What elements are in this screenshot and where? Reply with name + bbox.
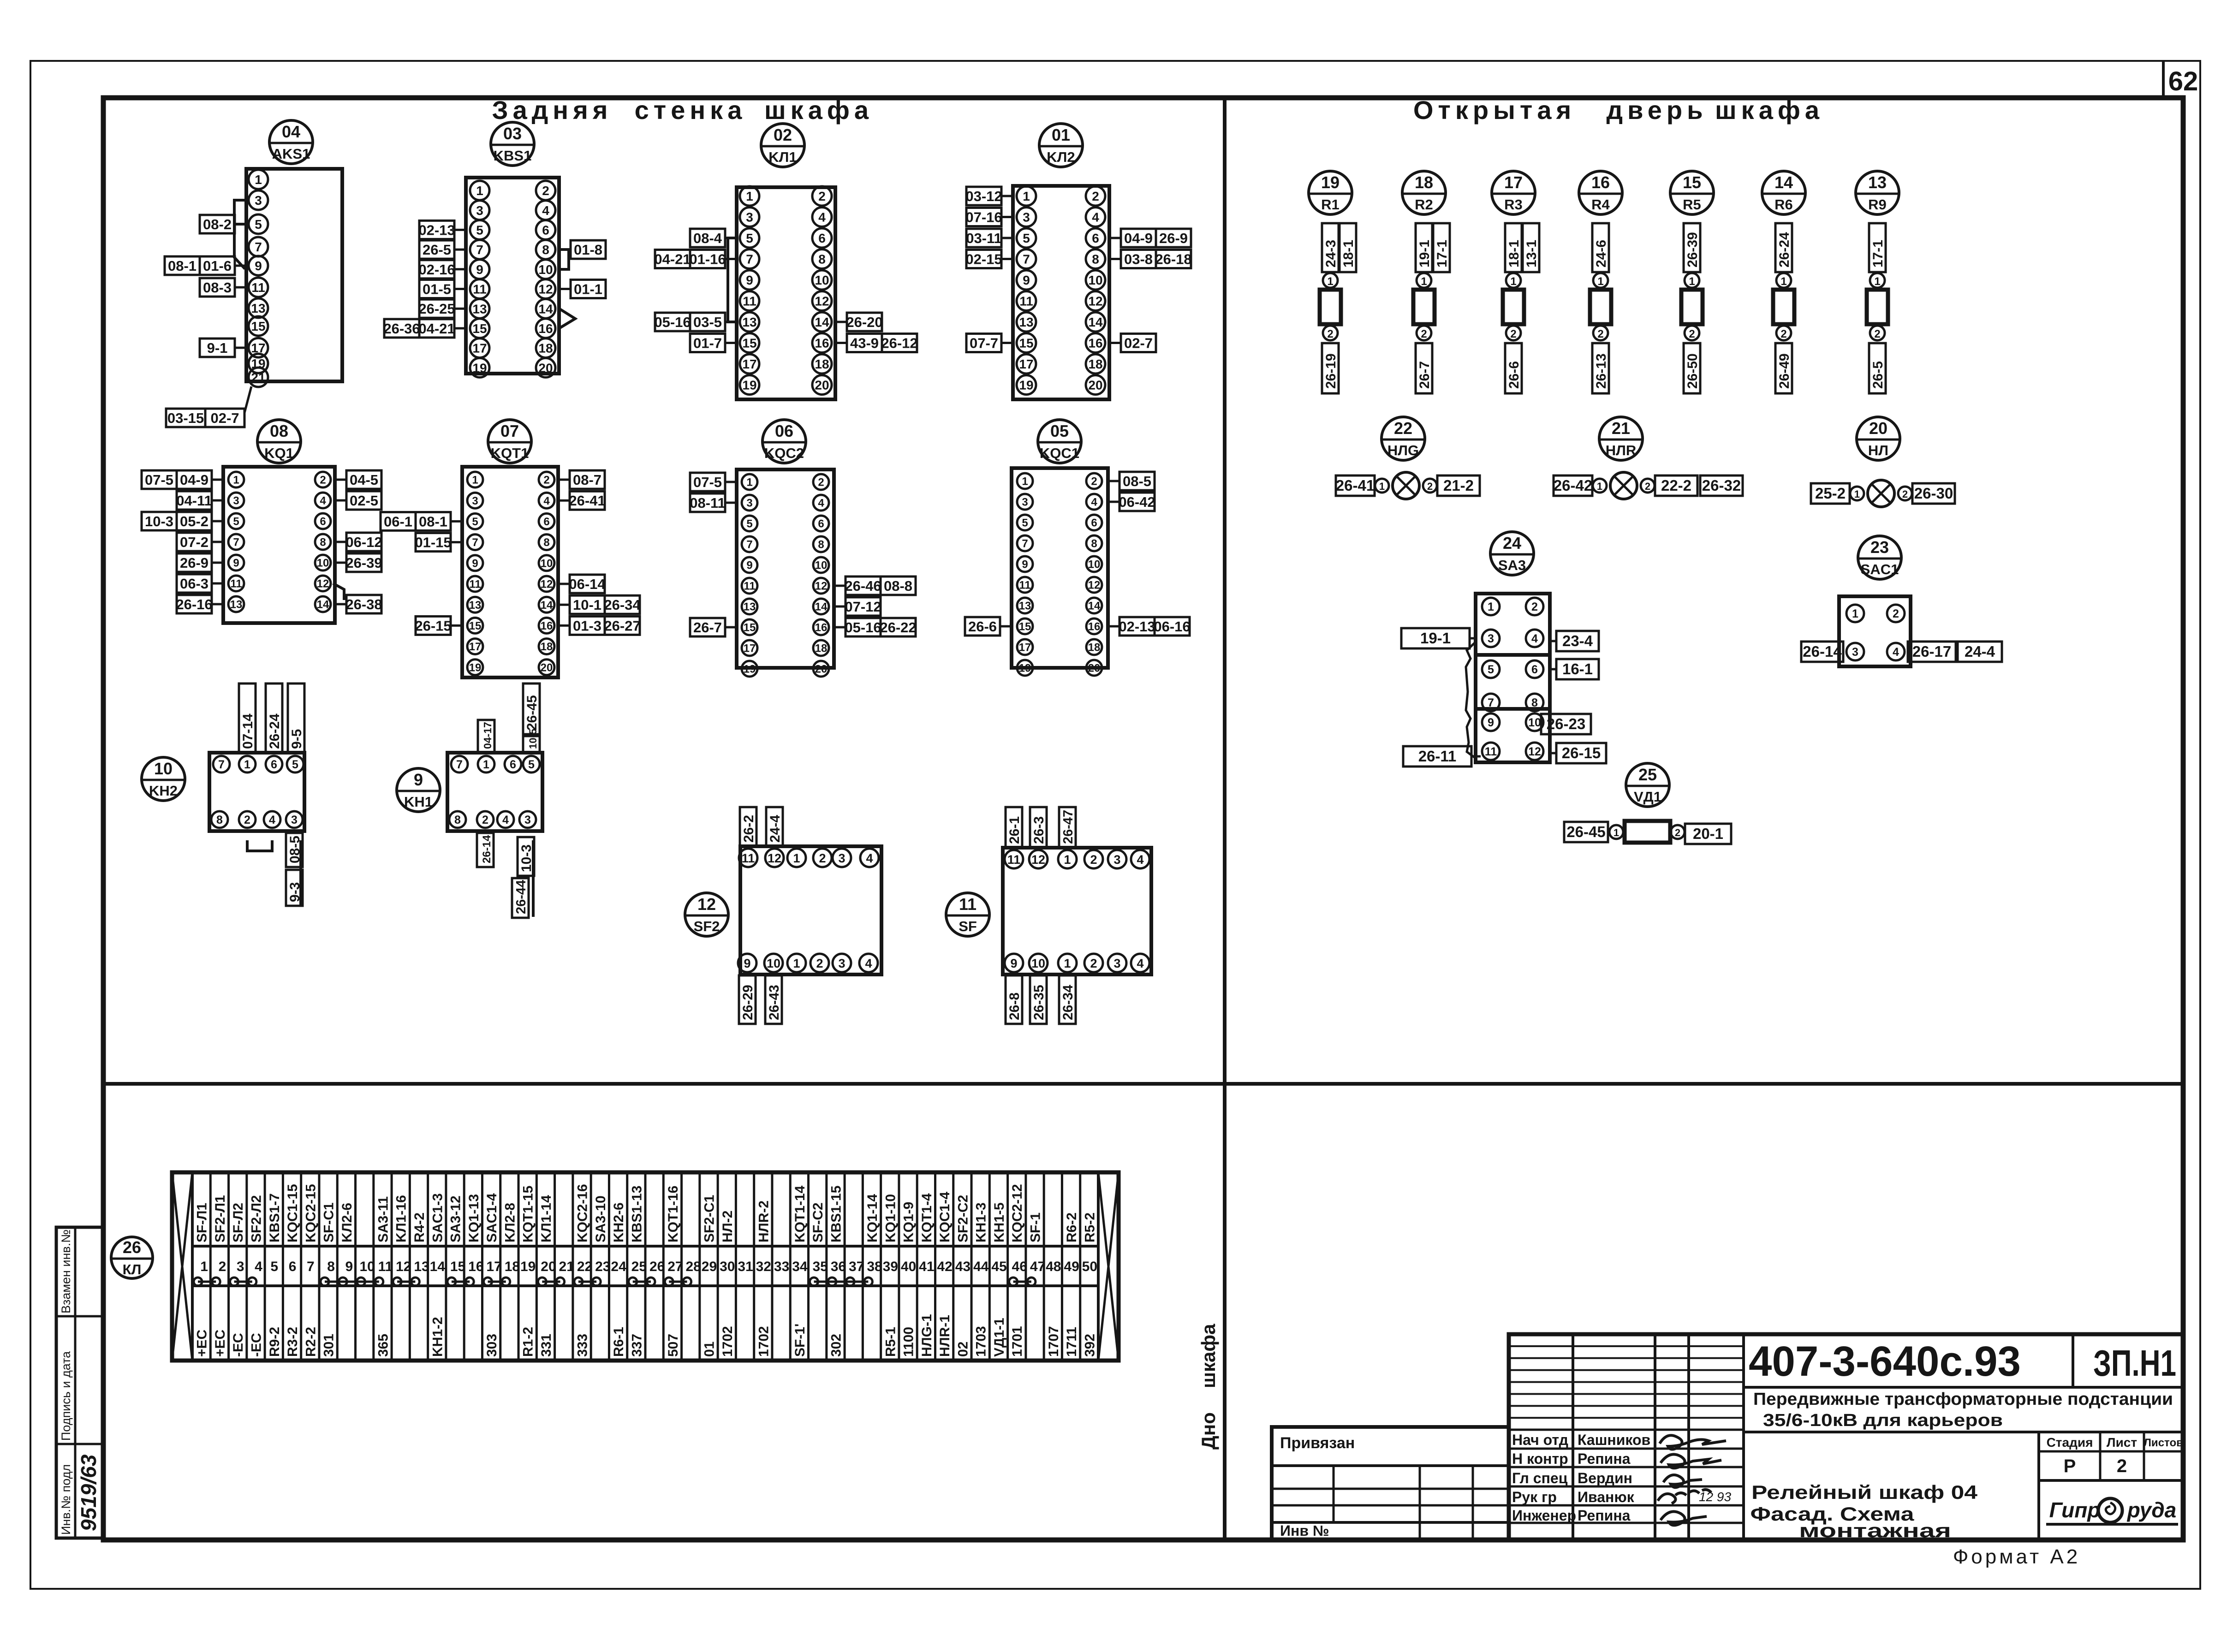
svg-text:13: 13 — [744, 601, 756, 613]
svg-text:17-1: 17-1 — [1870, 240, 1886, 267]
svg-text:23: 23 — [1870, 538, 1889, 557]
KЛ1 pin 7 — [740, 250, 759, 269]
svg-text:11: 11 — [378, 1259, 393, 1274]
svg-text:2: 2 — [1421, 328, 1427, 340]
terminal strip left end cell — [191, 1172, 194, 1361]
svg-text:02-7: 02-7 — [1124, 335, 1153, 351]
SF2 bottom pin 10 — [764, 954, 783, 972]
KЛ2 pin 18 — [1086, 354, 1105, 374]
svg-text:1: 1 — [1327, 275, 1333, 288]
svg-text:20: 20 — [541, 661, 553, 674]
svg-text:507: 507 — [666, 1334, 681, 1357]
wire tag 01-7 at KЛ1 pin 15 — [690, 334, 725, 352]
wire tag 26-15 at SA3 pin 12 — [1556, 743, 1606, 763]
svg-text:17: 17 — [1019, 642, 1031, 654]
svg-text:HЛG-1: HЛG-1 — [919, 1314, 935, 1357]
svg-text:AKS1: AKS1 — [272, 146, 310, 162]
KBS1 pin 10 — [536, 260, 555, 279]
svg-text:21-2: 21-2 — [1443, 477, 1474, 494]
svg-text:10: 10 — [767, 957, 780, 970]
svg-text:1: 1 — [1510, 275, 1516, 288]
svg-text:KQC2: KQC2 — [764, 445, 804, 461]
svg-text:1: 1 — [200, 1259, 208, 1274]
svg-text:Взамен инв.№: Взамен инв.№ — [59, 1230, 73, 1313]
svg-text:16: 16 — [815, 622, 828, 634]
KЛ1 pin 19 — [740, 375, 759, 395]
wire tag 26-7 at KQC2 pin 15 — [690, 618, 725, 636]
SF2 top pin 3 — [833, 849, 851, 867]
svg-text:1702: 1702 — [720, 1326, 735, 1357]
svg-text:333: 333 — [575, 1334, 590, 1357]
svg-text:8: 8 — [327, 1259, 335, 1274]
wire tag 04-21|01-16 at KЛ1 pin 7 — [655, 250, 725, 268]
svg-text:R9: R9 — [1868, 196, 1887, 213]
svg-text:8: 8 — [818, 539, 824, 551]
wire tag 05-16|03-5 at KЛ1 pin 13 — [655, 313, 725, 331]
svg-text:26-35: 26-35 — [1031, 985, 1047, 1020]
svg-text:21: 21 — [251, 370, 265, 385]
wire tag 07-16 at KЛ2 pin 3 — [966, 208, 1001, 226]
svg-text:3: 3 — [1852, 646, 1858, 659]
svg-text:KH1-5: KH1-5 — [992, 1202, 1007, 1242]
svg-text:Листов: Листов — [2144, 1437, 2183, 1449]
svg-text:12: 12 — [768, 851, 781, 865]
svg-text:03-8: 03-8 — [1124, 251, 1153, 267]
wire tag 26-23 at SA3 pin 10 — [1541, 714, 1591, 734]
svg-text:13: 13 — [472, 302, 487, 316]
wire tag 26-41 at HЛG pin 1 — [1336, 475, 1375, 496]
jumper terminals 46-47 — [1013, 1281, 1031, 1283]
svg-text:02-7: 02-7 — [210, 410, 239, 426]
lamp HЛR symbol — [1610, 472, 1637, 499]
svg-text:3: 3 — [237, 1259, 244, 1274]
KЛ2 pin 15 — [1017, 333, 1036, 353]
wire tag 07-5 at KQC2 pin 1 — [690, 473, 725, 491]
svg-text:01-16: 01-16 — [689, 251, 726, 267]
SAC1 pin 1 — [1846, 605, 1864, 622]
KQT1 pin 16 — [539, 618, 554, 633]
svg-text:1707: 1707 — [1046, 1326, 1061, 1357]
svg-text:R3: R3 — [1504, 196, 1523, 213]
svg-text:3: 3 — [1022, 496, 1028, 509]
svg-text:331: 331 — [539, 1334, 554, 1357]
SF2 bottom pin 4 — [859, 954, 878, 972]
wire tag 26-11 at SA3 pin 11 — [1403, 746, 1471, 767]
AKS1 pin 11 — [249, 278, 268, 297]
svg-text:R5-1: R5-1 — [883, 1327, 898, 1357]
SF bottom pin 10 — [1029, 954, 1048, 972]
SA3 pin 10 — [1526, 713, 1543, 731]
AKS1 pin 15 — [249, 316, 268, 336]
svg-text:KQ1-13: KQ1-13 — [466, 1194, 482, 1242]
terminal strip right end cell — [1097, 1172, 1100, 1361]
KBS1 pin 17 — [470, 339, 489, 358]
jumper terminals 17-18 — [488, 1281, 506, 1283]
svg-text:08-3: 08-3 — [203, 279, 232, 296]
svg-text:1: 1 — [1689, 275, 1695, 288]
svg-text:01-8: 01-8 — [574, 242, 602, 258]
svg-text:R1: R1 — [1321, 196, 1340, 213]
wire tags 17-1 above R9 — [1869, 223, 1886, 272]
wire tag 16-1 at SA3 pin 6 — [1556, 659, 1599, 679]
svg-text:26-12: 26-12 — [881, 335, 917, 351]
svg-text:19: 19 — [742, 378, 756, 392]
svg-text:26-19: 26-19 — [1323, 353, 1339, 389]
svg-text:Инв №: Инв № — [1280, 1522, 1329, 1539]
SF bottom pin 4 — [1131, 954, 1149, 972]
KЛ2 pin 20 — [1086, 375, 1105, 395]
svg-text:06-1: 06-1 — [384, 513, 412, 529]
SF bottom pin 3 — [1108, 954, 1126, 972]
resistor 18/R2 designator — [1402, 171, 1446, 214]
relay 06/KQC2 designator — [762, 420, 806, 463]
svg-text:42: 42 — [937, 1259, 952, 1274]
KBS1 pin 5 — [470, 220, 489, 239]
svg-text:7: 7 — [476, 243, 483, 257]
svg-text:SAC1-4: SAC1-4 — [484, 1193, 500, 1242]
KЛ1 pin 5 — [740, 228, 759, 248]
KЛ2 pin 2 — [1086, 186, 1105, 206]
KQ1 pin 4 — [315, 493, 331, 508]
svg-text:1: 1 — [233, 474, 239, 487]
svg-text:2: 2 — [1090, 957, 1097, 970]
wire tag 26-7 below R2 — [1416, 343, 1432, 393]
wire tag 02-16 at KBS1 pin 9 — [419, 260, 454, 279]
KЛ1 pin 17 — [740, 354, 759, 374]
wire tag 26-8 below SF — [1006, 975, 1022, 1024]
svg-text:KH1-2: KH1-2 — [430, 1317, 445, 1357]
svg-text:SA3-10: SA3-10 — [593, 1195, 608, 1242]
wire tag at HЛR pin 2 — [1655, 475, 1697, 496]
svg-text:KQT1-16: KQT1-16 — [666, 1186, 681, 1242]
svg-text:6: 6 — [1531, 663, 1538, 676]
wire at AKS1 — [234, 200, 246, 269]
svg-text:6: 6 — [818, 231, 826, 245]
SF bottom pin 2 — [1084, 954, 1103, 972]
svg-text:KQC1: KQC1 — [1040, 445, 1079, 461]
svg-text:5: 5 — [1022, 517, 1028, 529]
KH1 pin 5 — [523, 756, 540, 773]
svg-text:3: 3 — [1488, 632, 1494, 645]
wire tag 26-9 at KQ1 pin 9 — [177, 553, 212, 572]
svg-text:1: 1 — [746, 189, 753, 203]
svg-text:02-13: 02-13 — [418, 222, 455, 238]
wire tag 10-1|26-34 at KQT1 pin 14 — [570, 595, 640, 614]
wire tag 03-8|26-18 at KЛ2 pin 8 — [1121, 250, 1191, 268]
svg-text:337: 337 — [629, 1334, 644, 1357]
wire tag 26-35 below SF — [1030, 975, 1047, 1024]
AKS1 pin 9 — [249, 256, 268, 275]
svg-text:18: 18 — [505, 1259, 520, 1274]
KQ1 pin 10 — [315, 555, 331, 570]
resistor R6 body — [1773, 290, 1794, 324]
svg-text:2: 2 — [819, 851, 826, 865]
svg-text:13: 13 — [469, 599, 482, 612]
svg-text:7: 7 — [746, 252, 753, 267]
svg-text:SF-Л2: SF-Л2 — [231, 1203, 246, 1242]
HЛR pin 2 — [1641, 479, 1655, 493]
svg-text:12: 12 — [815, 580, 828, 593]
svg-text:KQ1-14: KQ1-14 — [865, 1194, 880, 1242]
svg-text:4: 4 — [269, 814, 275, 826]
KQC1 pin 19 — [1017, 660, 1033, 676]
svg-text:26-20: 26-20 — [846, 314, 882, 330]
KBS1 pin 3 — [470, 201, 489, 220]
svg-text:10: 10 — [154, 759, 173, 778]
KQC2 pin 6 — [813, 516, 829, 531]
svg-text:06-14: 06-14 — [569, 576, 606, 592]
KH1 pin 6 — [505, 756, 521, 773]
svg-text:1701: 1701 — [1010, 1326, 1025, 1357]
svg-text:04-17: 04-17 — [482, 722, 494, 749]
KQC1 pin 12 — [1086, 577, 1102, 593]
wire tag 9-1 at AKS1 pin 17 — [200, 339, 235, 357]
svg-text:302: 302 — [828, 1334, 844, 1357]
KЛ1 pin 8 — [812, 250, 832, 269]
svg-text:10: 10 — [815, 559, 828, 572]
svg-text:Передвижные трансформаторные п: Передвижные трансформаторные подстанции — [1753, 1390, 2173, 1409]
svg-text:8: 8 — [543, 536, 549, 549]
AKS1 pin 21 — [249, 368, 268, 387]
R6 pin 1 — [1776, 273, 1791, 288]
svg-text:5: 5 — [476, 223, 483, 237]
svg-text:2: 2 — [1092, 189, 1099, 203]
KQC2 pin 3 — [742, 495, 757, 511]
svg-text:08-11: 08-11 — [690, 495, 726, 511]
svg-text:14: 14 — [815, 315, 829, 329]
AKS1 pin 17 — [249, 338, 268, 357]
svg-text:18: 18 — [1088, 357, 1102, 371]
KQC2 pin 13 — [742, 599, 757, 614]
SF2 bottom pin 1 — [787, 954, 806, 972]
KQT1 pin 13 — [467, 597, 483, 612]
switch 23/SAC1 designator — [1858, 536, 1901, 579]
svg-text:8: 8 — [1091, 538, 1097, 550]
svg-text:26-34: 26-34 — [1060, 985, 1076, 1020]
svg-text:14: 14 — [541, 599, 553, 612]
breaker 11/SF body — [1003, 848, 1151, 975]
svg-text:15: 15 — [469, 620, 482, 632]
svg-text:13: 13 — [251, 301, 265, 315]
svg-text:SF-C2: SF-C2 — [810, 1202, 826, 1242]
svg-text:24-3: 24-3 — [1323, 240, 1339, 267]
relay 03/KBS1 designator — [491, 122, 534, 166]
svg-text:3: 3 — [291, 814, 298, 826]
svg-text:46: 46 — [1012, 1259, 1027, 1274]
jumper terminals 22-23 — [578, 1281, 596, 1283]
wire tag 26-16 at KQ1 pin 13 — [177, 595, 212, 613]
svg-text:26-41: 26-41 — [569, 493, 605, 509]
wire tag 07-12 at KQC2 pin 14 — [846, 597, 881, 616]
svg-text:5: 5 — [746, 231, 753, 245]
svg-text:9: 9 — [1010, 957, 1017, 970]
KBS1 pin 1 — [470, 181, 489, 200]
svg-text:16: 16 — [538, 321, 553, 336]
svg-text:01-5: 01-5 — [423, 281, 451, 297]
svg-text:26-9: 26-9 — [1159, 230, 1188, 246]
KQT1 pin 4 — [539, 493, 554, 508]
svg-text:9: 9 — [1022, 559, 1028, 571]
svg-text:11: 11 — [251, 280, 265, 295]
svg-text:9-1: 9-1 — [207, 340, 228, 356]
svg-text:SF-1: SF-1 — [1028, 1212, 1043, 1242]
svg-text:24-4: 24-4 — [768, 815, 783, 843]
KЛ2 pin 9 — [1017, 270, 1036, 290]
svg-text:4: 4 — [502, 814, 509, 826]
svg-text:24-4: 24-4 — [1965, 643, 1995, 660]
wire tag 04-5 at KQ1 pin 2 — [346, 470, 381, 489]
svg-text:19-1: 19-1 — [1417, 240, 1432, 267]
wire tag 08-2 at AKS1 pin 5 — [200, 215, 235, 233]
svg-text:Рук гр: Рук гр — [1512, 1489, 1557, 1505]
jumper terminals 1-2 — [198, 1281, 216, 1283]
wire tag 26-13 below R4 — [1592, 343, 1609, 393]
svg-text:17: 17 — [486, 1259, 501, 1274]
svg-text:14: 14 — [1774, 173, 1793, 192]
svg-text:14: 14 — [430, 1259, 446, 1274]
svg-text:02-13: 02-13 — [1119, 618, 1155, 635]
KQT1 pin 1 — [467, 472, 483, 487]
KBS1 pin 4 — [536, 201, 555, 220]
svg-text:15: 15 — [472, 321, 487, 336]
svg-text:26-14: 26-14 — [481, 835, 493, 863]
svg-text:1: 1 — [1597, 275, 1603, 288]
svg-text:SF-1': SF-1' — [792, 1324, 808, 1357]
svg-text:-EC: -EC — [231, 1333, 246, 1357]
relay 04/AKS1 body — [246, 169, 342, 381]
svg-text:4: 4 — [255, 1259, 262, 1274]
wire tag 24-4 above SF2 — [766, 807, 783, 846]
svg-text:5: 5 — [292, 758, 298, 771]
svg-text:11: 11 — [743, 294, 756, 309]
R5 pin 1 — [1685, 273, 1699, 288]
KH1 pin 2 — [477, 811, 494, 828]
KBS1 pin 6 — [536, 220, 555, 239]
KBS1 pin 12 — [536, 279, 555, 299]
svg-text:26-24: 26-24 — [1777, 232, 1792, 267]
svg-text:10: 10 — [538, 262, 553, 277]
svg-text:20: 20 — [1088, 378, 1102, 392]
KЛ2 pin 11 — [1017, 291, 1036, 311]
svg-text:Привязан: Привязан — [1280, 1434, 1355, 1452]
svg-text:08-2: 08-2 — [203, 216, 232, 232]
svg-text:20-1: 20-1 — [1693, 825, 1723, 842]
svg-text:шкафа: шкафа — [764, 95, 873, 125]
wire tag 20-1 at VД1 pin 2 — [1685, 824, 1731, 844]
svg-text:06: 06 — [775, 422, 793, 440]
svg-text:дверь: дверь — [1606, 95, 1707, 125]
KQC1 pin 17 — [1017, 639, 1033, 655]
svg-text:19: 19 — [1321, 173, 1340, 192]
resistor 14/R6 designator — [1762, 171, 1805, 214]
svg-text:1: 1 — [1023, 189, 1030, 203]
svg-text:стенка: стенка — [635, 95, 747, 125]
svg-text:22: 22 — [1394, 419, 1412, 438]
R9 pin 1 — [1870, 273, 1885, 288]
svg-text:26-46: 26-46 — [845, 578, 881, 594]
svg-text:17: 17 — [1504, 173, 1523, 192]
svg-text:4: 4 — [818, 497, 824, 510]
svg-text:12: 12 — [1088, 579, 1101, 592]
svg-text:10-5: 10-5 — [527, 729, 539, 749]
breaker 12/SF2 body — [740, 846, 881, 975]
svg-text:38: 38 — [867, 1259, 882, 1274]
KQC1 pin 15 — [1017, 618, 1033, 634]
svg-text:4: 4 — [1091, 496, 1097, 509]
KH2 pin 7 — [213, 756, 230, 773]
svg-text:R2-2: R2-2 — [303, 1327, 318, 1357]
svg-text:3: 3 — [838, 851, 845, 865]
svg-text:КЛ: КЛ — [123, 1261, 142, 1278]
wire tag 26-46|08-8 at KQC2 pin 12 — [846, 576, 916, 595]
svg-text:6: 6 — [542, 223, 549, 237]
svg-text:04-9: 04-9 — [1124, 230, 1153, 246]
R5 pin 2 — [1685, 326, 1699, 340]
svg-text:KH1-3: KH1-3 — [974, 1202, 989, 1242]
svg-text:9: 9 — [476, 262, 483, 277]
svg-text:SF2-Л1: SF2-Л1 — [213, 1195, 228, 1242]
svg-text:50: 50 — [1082, 1259, 1097, 1274]
KЛ2 pin 16 — [1086, 333, 1105, 353]
KЛ1 pin 1 — [740, 186, 759, 206]
svg-text:19: 19 — [469, 661, 482, 674]
svg-text:KЛ1-14: KЛ1-14 — [539, 1195, 554, 1242]
svg-text:04: 04 — [282, 122, 300, 141]
svg-text:R6-2: R6-2 — [1064, 1212, 1079, 1242]
svg-text:19: 19 — [1019, 662, 1031, 675]
svg-text:44: 44 — [973, 1259, 989, 1274]
svg-text:26-34: 26-34 — [604, 597, 641, 613]
svg-text:3: 3 — [1113, 957, 1120, 970]
KЛ1 pin 13 — [740, 312, 759, 332]
SF2 top pin 1 — [787, 849, 806, 867]
wire tag 05-16|26-22 at KQC2 pin 16 — [846, 618, 916, 636]
svg-text:VД1: VД1 — [1634, 789, 1661, 805]
svg-text:8: 8 — [1092, 252, 1099, 267]
wire tag 26-50 below R5 — [1684, 343, 1700, 393]
svg-text:6: 6 — [320, 516, 326, 528]
KЛ2 pin 4 — [1086, 208, 1105, 227]
svg-text:11: 11 — [1019, 579, 1030, 592]
SF top pin 11 — [1005, 850, 1023, 868]
svg-text:11: 11 — [742, 851, 755, 865]
svg-text:34: 34 — [792, 1259, 808, 1274]
AKS1 pin 3 — [249, 190, 268, 210]
KQC1 pin 20 — [1086, 660, 1102, 676]
KЛ2 pin 5 — [1017, 228, 1036, 248]
KQT1 pin 7 — [467, 535, 483, 550]
svg-text:26-42: 26-42 — [1554, 477, 1592, 494]
wire tag 26-14 at SAC1 pin 3 — [1801, 642, 1843, 662]
relay 10/KH2 body — [209, 753, 304, 831]
svg-text:10: 10 — [317, 557, 329, 570]
KH2 pin 2 — [239, 811, 256, 828]
svg-text:KQT1-14: KQT1-14 — [792, 1185, 808, 1242]
KЛ1 pin 2 — [812, 186, 832, 206]
AKS1 pin 1 — [249, 170, 268, 189]
KQC2 pin 5 — [742, 516, 757, 531]
relay 01/KЛ2 designator — [1039, 124, 1083, 167]
lamp 21/HЛR designator — [1599, 417, 1643, 460]
sheet number box — [2162, 61, 2165, 98]
KQT1 pin 17 — [467, 639, 483, 654]
svg-text:7: 7 — [1488, 696, 1494, 709]
svg-text:26-18: 26-18 — [1155, 251, 1191, 267]
KQC1 pin 3 — [1017, 494, 1033, 510]
wire tag 01-15 at KQT1 pin 7 — [416, 533, 451, 552]
svg-text:26: 26 — [123, 1238, 141, 1257]
AKS1 pin 19 — [249, 354, 268, 373]
